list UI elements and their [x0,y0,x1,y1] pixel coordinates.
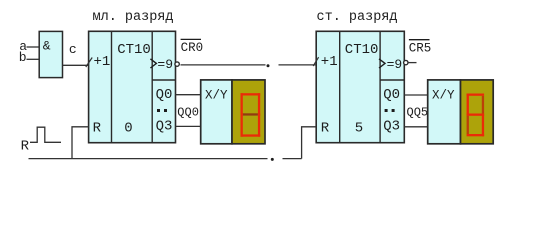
wire a to AND gate [27,46,40,48]
decoder/display DD4 X/Y (low digit) [201,80,265,144]
segment c lit [482,114,484,137]
svg-text:R: R [93,121,102,137]
pin label >=9 (counter DD2) [150,59,156,68]
wire Q0 counter DD3 to decoder DD5 [404,94,427,96]
net label CR5 overline [409,39,430,41]
segment f lit [467,94,469,116]
svg-text:c: c [69,42,77,57]
net label CR0 overline [181,38,201,40]
svg-text:R: R [21,139,30,155]
clock pulse waveform symbol [30,127,61,142]
svg-text:QQ0: QQ0 [177,105,199,119]
wire CR0 to +1 input of counter DD3 [279,64,317,66]
decoder/display DD5 X/Y (high digit) [428,80,494,144]
wire b to AND gate [27,58,40,60]
ellipsis dots Q0..Q3 (counter DD2) [157,109,160,112]
junction dot on CR0 wire [267,64,270,67]
svg-text:Q3: Q3 [156,119,173,135]
segment f lit [241,93,243,115]
svg-text:+1: +1 [94,54,111,70]
svg-text:QQ5: QQ5 [407,105,429,119]
svg-text:CR5: CR5 [409,41,432,55]
svg-text:CT10: CT10 [117,42,151,58]
wire Q3 counter DD3 to decoder DD5 [404,126,427,128]
wire R riser to counter DD2 R input [72,127,89,159]
svg-text:X/Y: X/Y [432,88,455,102]
svg-text:+1: +1 [321,54,338,70]
svg-text:5: 5 [355,121,363,137]
wire riser to counter DD3 R input [302,127,317,159]
AND gate DD1 [39,31,62,77]
segment c lit [258,113,260,136]
inversion bubble at >=9 output (counter DD2) [175,62,179,66]
edge-trigger slash at +1 input of counter DD2 [86,58,92,68]
counter DD3 CT10 (high digit) body [316,31,404,142]
svg-text:&: & [43,39,51,54]
svg-text:Q0: Q0 [383,87,400,103]
svg-text:0: 0 [124,121,132,137]
edge-trigger slash at +1 input of counter DD3 [313,57,318,66]
svg-text:Q0: Q0 [156,87,173,103]
svg-text:b: b [19,50,27,65]
segment b dim [482,96,484,114]
counter DD2 CT10 (low digit) body [89,31,176,142]
ellipsis dots Q0..Q3 (counter DD3) [385,109,388,112]
wire Q0 counter DD2 to decoder DD4 [176,94,201,96]
svg-text:=9: =9 [157,57,173,72]
wire stub CR5 output [408,62,417,64]
svg-text:ст. разряд: ст. разряд [317,10,398,25]
svg-text:=9: =9 [387,57,403,72]
segment d lit [241,134,261,136]
segment e dim [467,116,469,134]
pin label >=9 (counter DD3) [379,59,385,68]
inversion bubble at >=9 output (counter DD3) [404,60,408,64]
svg-text:R: R [321,121,330,137]
svg-text:CR0: CR0 [181,41,204,55]
wire AND output to +1 input of counter DD2 [63,64,89,66]
wire bottom rail segment 2 [283,158,302,160]
svg-text:CT10: CT10 [345,42,379,58]
svg-text:Q3: Q3 [383,119,400,135]
wire bottom rail segment 1 [29,158,268,160]
segment b lit [258,93,260,115]
junction dot on bottom rail [271,158,274,161]
svg-text:X/Y: X/Y [205,88,228,102]
segment g dim [243,113,258,115]
seven-segment digit 0 (low display): segment a lit [241,93,261,95]
wire CR0 from counter DD2 to junction [181,64,266,66]
segment g lit [467,114,485,116]
wire Q3 counter DD2 to decoder DD4 [176,125,201,127]
segment e lit [241,113,243,136]
svg-text:мл. разряд: мл. разряд [93,10,174,25]
seven-segment digit 5 (high display): segment a lit [467,94,485,96]
segment d lit [467,134,485,136]
